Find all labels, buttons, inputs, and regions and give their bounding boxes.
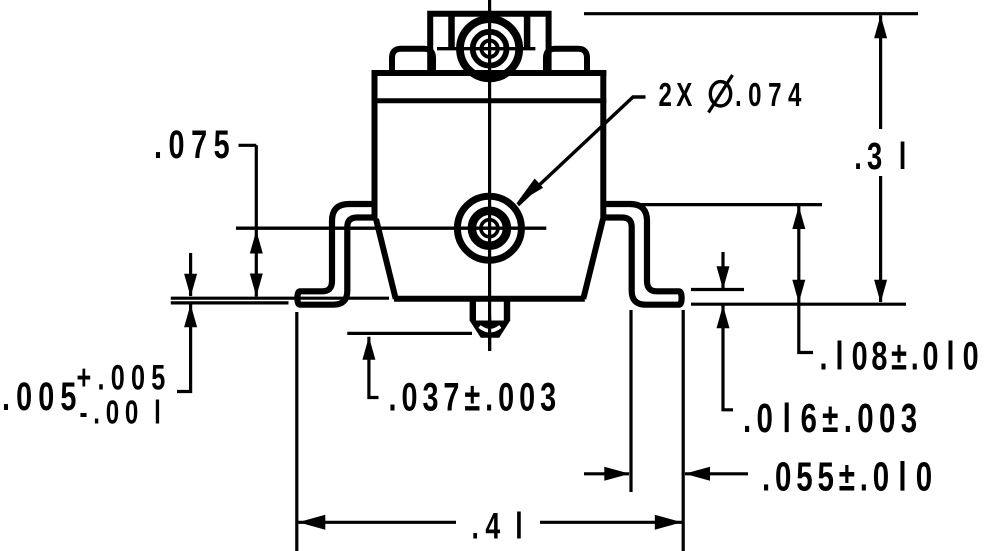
arrow .31 down — [874, 280, 887, 303]
center hole middle circle — [472, 211, 507, 246]
body top edge — [372, 70, 607, 76]
arrow .41 right-pointing — [655, 515, 682, 530]
svg-text:.075: .075 — [154, 122, 236, 167]
arrow .016 down — [717, 266, 730, 289]
tab inner line left — [448, 14, 455, 49]
dim .016 upper shaft — [721, 252, 724, 288]
body right edge — [600, 70, 606, 220]
svg-text:.037±.003: .037±.003 — [389, 375, 562, 420]
lead right — [604, 204, 682, 305]
shoulder left — [392, 49, 433, 74]
arrow .005 down — [184, 274, 197, 297]
arrow .055 right-pointing — [604, 467, 630, 481]
dim .055 right arrow shaft — [685, 472, 748, 475]
svg-text:.4l: .4l — [472, 505, 530, 546]
shoulder right — [546, 49, 587, 74]
centerline over pin — [488, 315, 491, 351]
center hole outer circle — [457, 196, 521, 260]
extension line .41 right — [682, 310, 685, 551]
arrow leader — [516, 179, 543, 205]
lead left — [297, 204, 375, 305]
tab outline — [430, 14, 548, 73]
dim .005 upper shaft — [189, 253, 192, 296]
svg-text:.005: .005 — [2, 374, 83, 419]
arrow .108 down — [792, 280, 805, 303]
svg-text:.l08±.0l0: .l08±.0l0 — [820, 334, 983, 379]
dim .016 lower shaft + hook — [723, 305, 733, 410]
dim .037 shaft + hook — [369, 337, 379, 398]
arrow .075 down — [250, 274, 263, 297]
dim .005 lower shaft + hook — [177, 304, 191, 391]
body taper right — [583, 219, 603, 299]
svg-text:+.005: +.005 — [77, 358, 172, 397]
arrow .31 up — [874, 15, 887, 38]
svg-text:-.00l: -.00l — [80, 395, 167, 432]
dim .055 left arrow shaft — [584, 472, 629, 475]
svg-text:.055±.0l0: .055±.0l0 — [762, 454, 937, 500]
arrow .075 up — [250, 231, 263, 254]
extension line .41 left — [295, 312, 298, 551]
arrow .016 up — [717, 305, 730, 328]
dim .075 leader horizontal — [239, 144, 257, 147]
pin inner arc (white sliver) — [480, 327, 501, 331]
top hole middle circle — [473, 32, 507, 66]
seating line left lower — [171, 301, 289, 304]
svg-text:.3l: .3l — [854, 136, 911, 178]
seating line left upper — [171, 297, 389, 300]
center hole crosshair horizontal — [236, 226, 546, 229]
dim .41 line right — [540, 521, 682, 524]
dim .108 shaft + hook — [799, 206, 813, 353]
dim .31 upper shaft — [879, 15, 882, 129]
diameter symbol — [710, 82, 730, 106]
dim .075 vertical — [255, 145, 258, 296]
top hole inner circle — [481, 41, 497, 57]
centerline vertical — [488, 0, 491, 351]
top hole crosshair horizontal — [437, 47, 535, 50]
arrow .037 up — [362, 337, 375, 360]
leader 2X diameter — [518, 97, 646, 205]
body taper left — [376, 219, 396, 299]
top hole outer circle — [460, 19, 519, 78]
svg-text:.0l6±.003: .0l6±.003 — [743, 395, 922, 441]
arrow .41 left-pointing — [298, 515, 325, 530]
body bottom edge — [394, 296, 585, 302]
arrow .005 up — [184, 304, 197, 327]
body left edge — [372, 70, 378, 220]
tab inner line right — [524, 14, 531, 49]
dim .31 lower shaft — [879, 176, 882, 302]
arrow .108 up — [792, 206, 805, 229]
extension line lead top right — [613, 203, 822, 206]
center hole inner circle — [481, 220, 498, 237]
arrow .055 left-pointing — [685, 467, 711, 481]
extension line .055 left — [629, 310, 632, 492]
extension line foot top right — [691, 288, 744, 291]
dim .41 line left — [298, 521, 456, 524]
body cap line — [372, 98, 607, 103]
pin — [470, 301, 476, 321]
extension line pin bottom — [347, 332, 472, 335]
extension line tab top right — [584, 12, 918, 15]
svg-text:.074: .074 — [735, 77, 808, 114]
seating line right — [691, 303, 906, 306]
svg-text:2X: 2X — [659, 77, 697, 114]
